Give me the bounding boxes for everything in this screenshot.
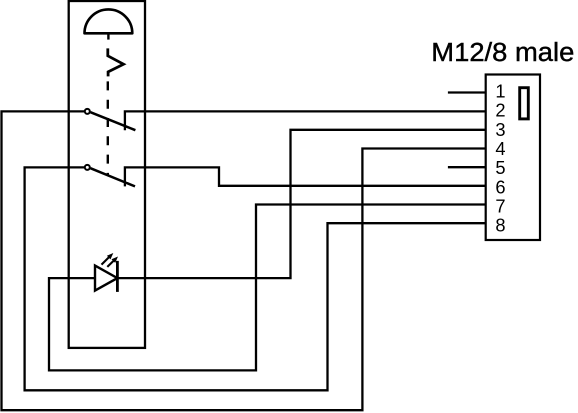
wire: pin 6 route (switch S2 right terminal to connector, with jog) <box>125 167 486 186</box>
wire: pin 8 route (connector to switch S2 left terminal via bottom) <box>25 167 486 390</box>
connector keying slot <box>520 88 529 119</box>
LED cathode bar <box>116 261 119 292</box>
indicator lamp dome <box>85 9 133 33</box>
wire: pin 1 stub <box>448 91 486 93</box>
lamp stem <box>107 33 109 39</box>
svg-text:2: 2 <box>495 100 505 121</box>
svg-text:4: 4 <box>495 138 505 159</box>
switch S2 pivot contact <box>85 165 90 170</box>
wire: pin 4 route (connector to switch S1 left terminal via bottom) <box>2 111 486 410</box>
svg-text:5: 5 <box>495 157 505 178</box>
switch S1 pivot contact <box>85 109 90 114</box>
wire: pin 5 stub <box>448 166 486 168</box>
svg-text:7: 7 <box>495 196 505 217</box>
svg-text:1: 1 <box>495 81 505 102</box>
device enclosure box <box>69 1 145 348</box>
wire: pin 7 route (connector to LED anode via bottom) <box>49 205 486 371</box>
mechanical link dashed line <box>107 81 109 175</box>
LED emission arrow 1 <box>102 253 114 265</box>
actuator chevron <box>108 48 124 76</box>
LED emission arrow 2 <box>107 257 118 267</box>
svg-text:M12/8 male: M12/8 male <box>431 39 574 67</box>
svg-text:6: 6 <box>495 176 505 197</box>
svg-text:8: 8 <box>495 215 505 236</box>
wire: pin 2 route (switch S1 right terminal to connector) <box>125 111 486 130</box>
switch S1 blade <box>90 112 135 130</box>
LED D1 triangle <box>95 266 117 291</box>
switch S2 blade <box>90 168 135 186</box>
svg-text:3: 3 <box>495 119 505 140</box>
connector J1 body <box>486 75 540 241</box>
wire: pin 3 route (connector to LED cathode) <box>117 130 485 278</box>
